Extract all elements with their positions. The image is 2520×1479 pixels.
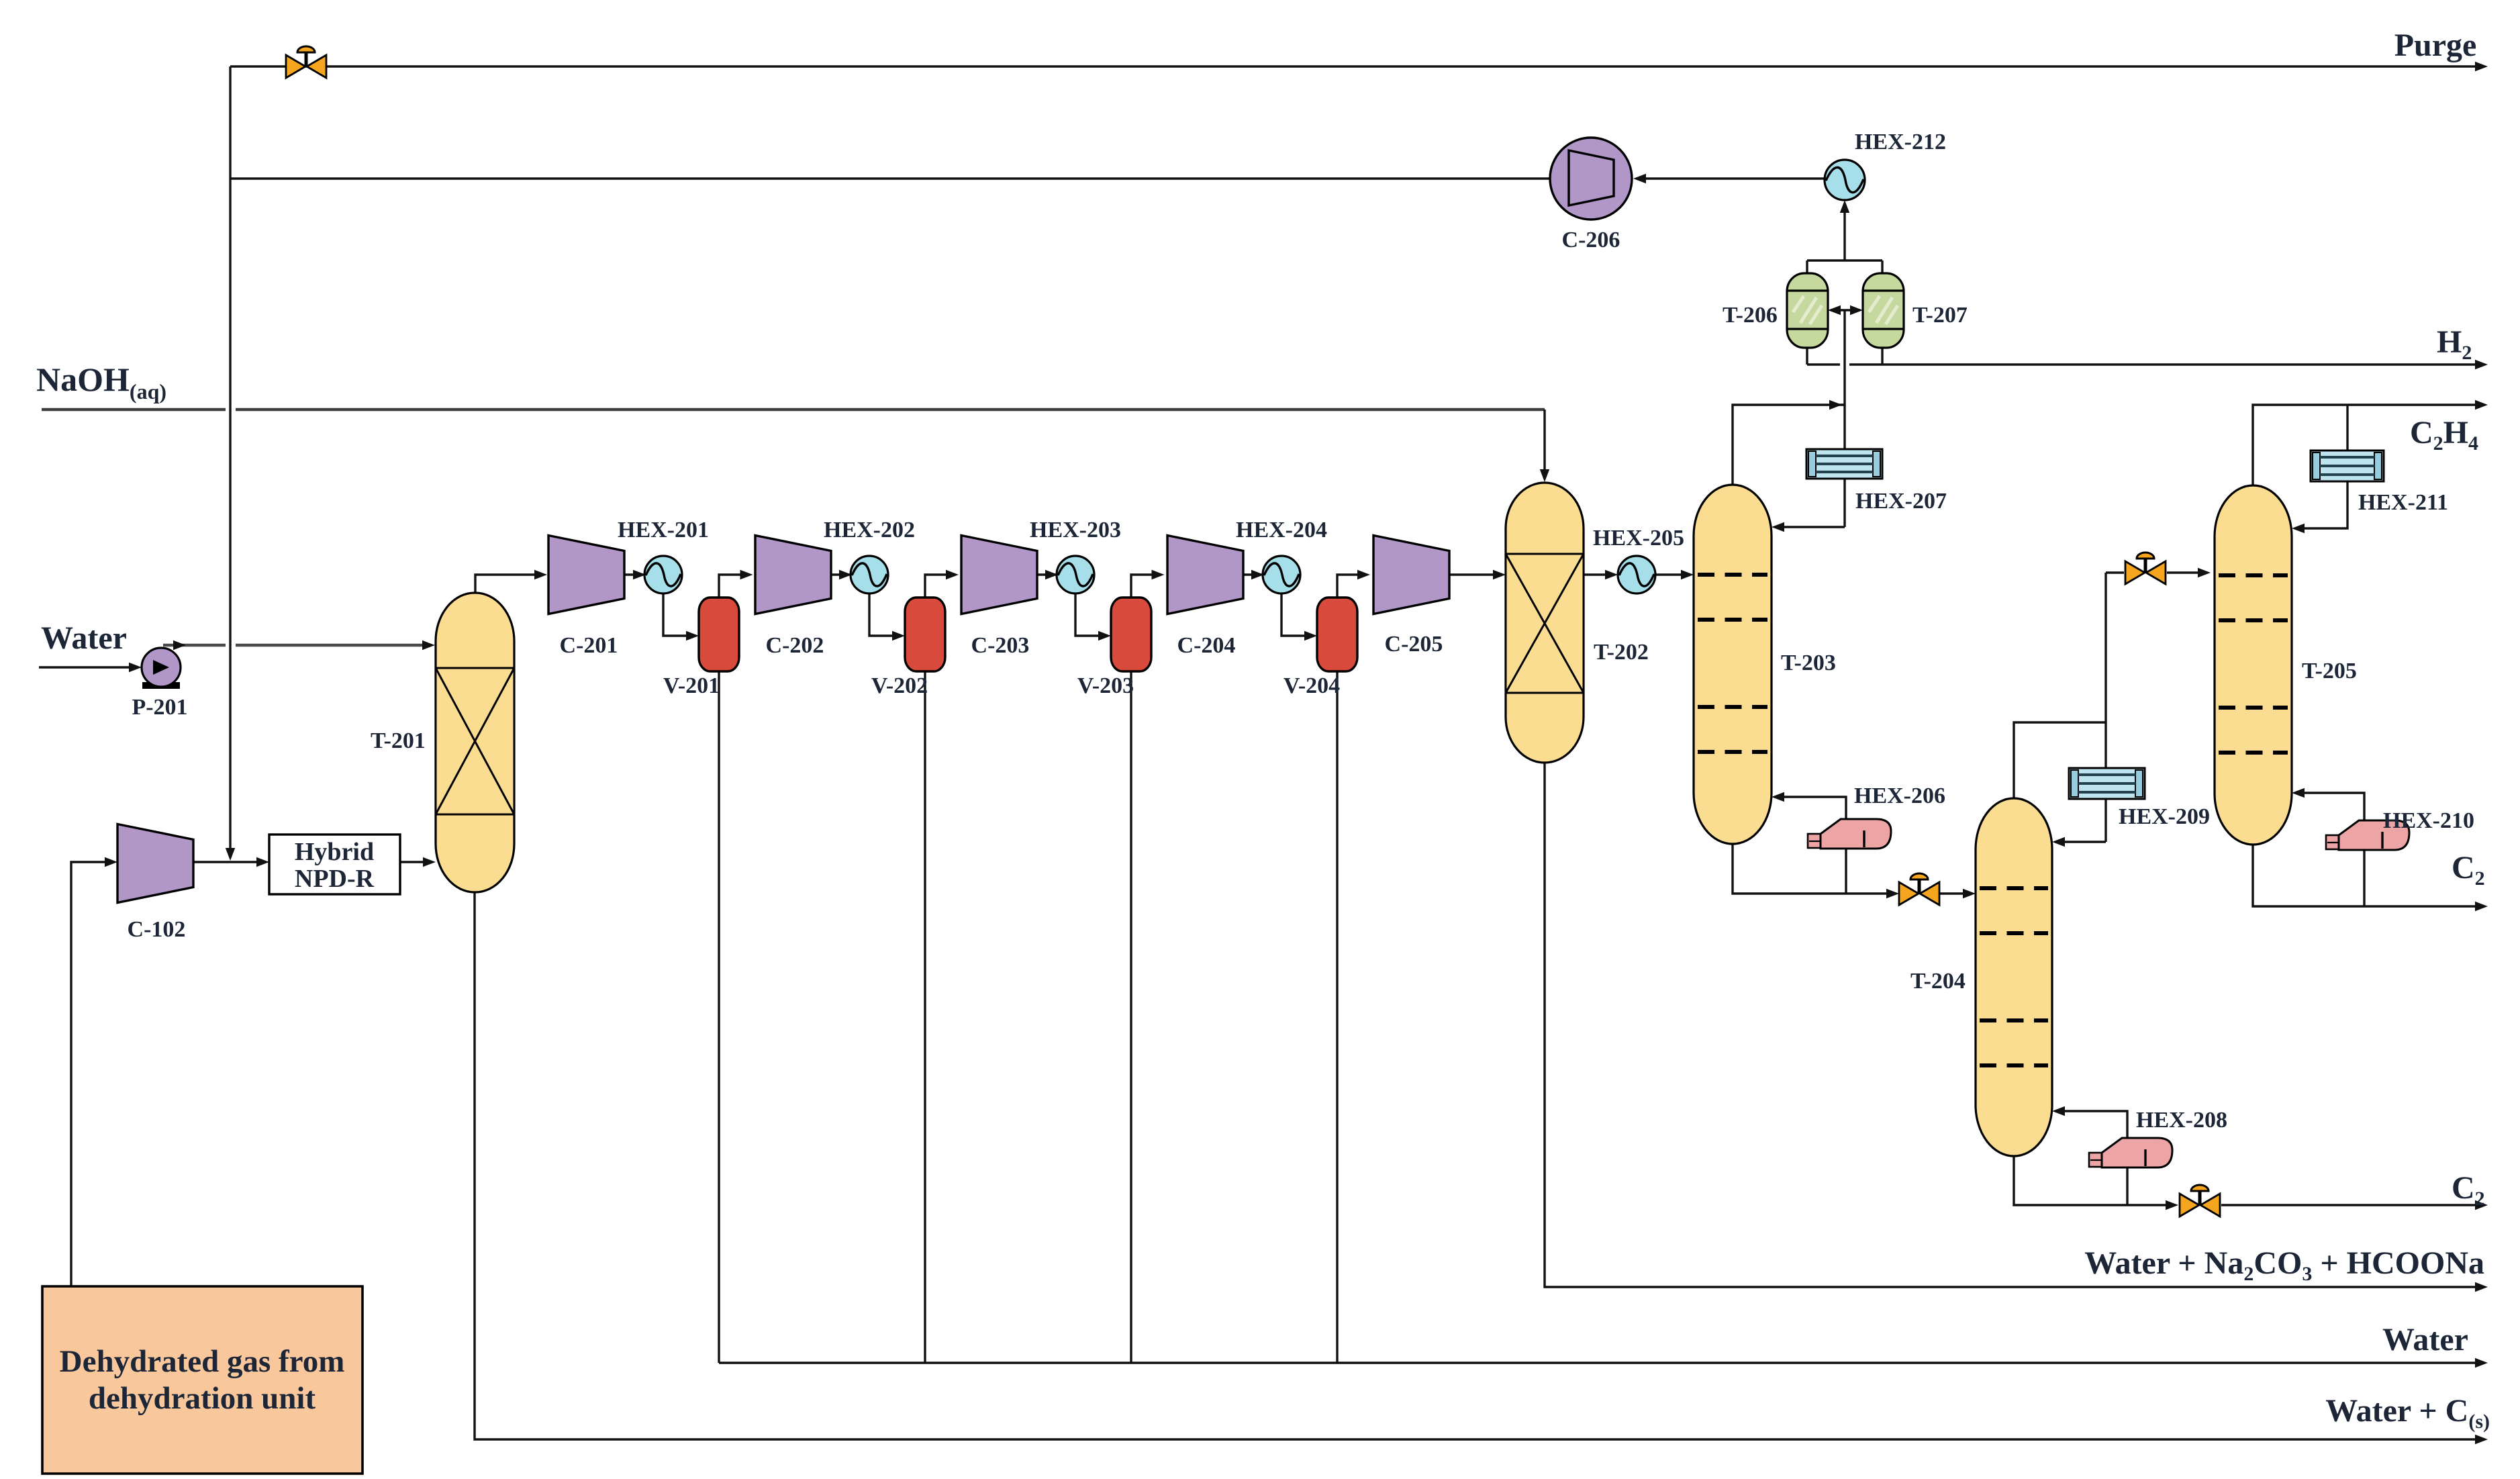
wire V-202 liquid drain — [924, 671, 926, 1363]
svg-text:T-201: T-201 — [371, 728, 426, 753]
wire drier center vertical through HEX-207 — [1843, 310, 1845, 527]
arrow into T-203 feed — [1681, 570, 1694, 579]
knockout drum V-204 — [1317, 598, 1357, 671]
arrow into Hybrid NPD-R — [256, 857, 269, 867]
svg-text:Water: Water — [2382, 1322, 2468, 1357]
letdown valve T-203 to T-204 — [1899, 873, 1939, 905]
arrow into V-203 — [1098, 631, 1111, 640]
arrow C2 upper outlet — [2475, 902, 2488, 911]
arrow Water+C(s) outlet — [2475, 1435, 2488, 1444]
wire HEX-208 riser — [2062, 1111, 2127, 1205]
feed box dehydrated gas — [42, 1286, 362, 1474]
wire NaOH(aq) feed header left part — [42, 408, 226, 412]
arrow into C-204 suction — [1152, 570, 1165, 579]
arrow into HEX-212 — [1840, 200, 1849, 213]
arrow T-203 overhead into drier riser — [1829, 400, 1842, 410]
arrow into T-206 — [1828, 305, 1841, 315]
arrow water into T-201 — [422, 640, 435, 650]
wire Hybrid NPD-R outlet to T-201 — [400, 861, 426, 863]
arrow into C-202 suction — [740, 570, 753, 579]
wire V-204 vapor to C-205 suction — [1337, 575, 1361, 598]
arrow into P-201 — [129, 663, 142, 672]
compressor C-203 — [961, 536, 1037, 614]
arrow into C-201 suction — [534, 570, 547, 579]
letdown valve T-204 bottoms C2 — [2180, 1185, 2220, 1216]
arrow into C-206 suction — [1633, 174, 1646, 183]
wire C2 letdown valve outlet — [2221, 1204, 2478, 1206]
condenser HEX-207 — [1806, 449, 1882, 479]
svg-text:HEX-205: HEX-205 — [1593, 526, 1684, 551]
wire feed gas riser from feed box — [71, 862, 108, 1286]
trays of T-203 — [1698, 575, 1767, 752]
svg-text:dehydration unit: dehydration unit — [89, 1381, 316, 1416]
svg-text:T-202: T-202 — [1594, 640, 1649, 665]
svg-text:HEX-212: HEX-212 — [1855, 130, 1946, 154]
wire junction to T-205 feed valve — [2106, 571, 2124, 573]
wire T-206 bottom leg — [1806, 348, 1808, 365]
arrow into T-207 — [1850, 305, 1863, 315]
arrow into HEX-205 — [1605, 570, 1618, 579]
condenser HEX-209 — [2069, 768, 2145, 799]
svg-text:V-202: V-202 — [871, 673, 928, 698]
wire T-201 overhead to C-201 — [475, 575, 538, 593]
svg-text:C-206: C-206 — [1562, 228, 1620, 252]
wire NaOH drop into T-202 top — [1543, 410, 1545, 473]
packing section of T-201 — [436, 668, 514, 814]
svg-text:C-204: C-204 — [1177, 633, 1236, 658]
wire purge header from recycle junction to Purge outlet — [230, 65, 2478, 67]
svg-text:HEX-201: HEX-201 — [618, 518, 709, 542]
compressor C-102 — [117, 824, 193, 903]
compressor C-201 — [548, 536, 624, 614]
arrow into T-202 — [1493, 570, 1506, 579]
wire HEX-207 return into T-203 — [1781, 526, 1845, 528]
wire drier top header — [1807, 259, 1882, 261]
reboiler HEX-210 — [2326, 820, 2409, 850]
packing section of T-202 — [1506, 554, 1584, 693]
wire T-206 top riser — [1806, 260, 1808, 273]
arrow reflux into T-205 — [2292, 524, 2305, 533]
arrow before letdown valve — [1886, 889, 1899, 898]
wire C-202 discharge to HEX-202 — [830, 573, 850, 575]
wire T-202 bottoms down — [1545, 763, 2478, 1287]
arrow HEX-206 return into T-203 — [1772, 792, 1784, 802]
arrow NaOH into T-202 — [1540, 469, 1549, 482]
wire T-205 overhead riser — [2253, 405, 2478, 485]
trays of T-204 — [1980, 888, 2048, 1065]
wire T-204 overhead vertical — [2104, 573, 2106, 842]
pump P-201 — [142, 648, 181, 689]
wire NaOH(aq) feed header right part — [236, 408, 1545, 412]
svg-text:HEX-204: HEX-204 — [1236, 518, 1327, 542]
arrow C2H4 outlet — [2475, 400, 2488, 410]
wire HEX-209 return into T-204 — [2062, 841, 2106, 843]
wire HEX-211 condenser branch — [2346, 405, 2348, 450]
cooler HEX-203 — [1057, 556, 1094, 593]
cooler HEX-204 — [1263, 556, 1300, 593]
column T-205 — [2215, 485, 2292, 845]
purge valve — [286, 46, 326, 78]
reboiler HEX-208 — [2089, 1138, 2172, 1167]
svg-text:HEX-206: HEX-206 — [1854, 783, 1945, 808]
wire HEX-204 outlet down to V-204 — [1281, 593, 1308, 636]
arrow into T-204 feed — [1963, 889, 1976, 898]
wire V-201 vapor to C-202 suction — [719, 575, 744, 598]
wire C-201 discharge to HEX-201 — [624, 573, 643, 575]
svg-text:C-205: C-205 — [1385, 632, 1443, 657]
wire drier feed cross line — [1831, 309, 1860, 311]
wire V-204 liquid drain — [1336, 671, 1338, 1363]
knockout drum V-201 — [699, 598, 739, 671]
wire H2 product header — [1849, 363, 2478, 365]
wire C-205 discharge to T-202 — [1447, 573, 1496, 575]
svg-text:HEX-208: HEX-208 — [2136, 1108, 2227, 1133]
knockout drum V-203 — [1111, 598, 1151, 671]
wire HEX-201 outlet down to V-201 — [663, 593, 689, 636]
svg-text:T-206: T-206 — [1723, 303, 1778, 328]
column T-203 — [1694, 485, 1772, 844]
wire water condensate header — [719, 1362, 2478, 1364]
svg-text:C-201: C-201 — [560, 633, 618, 658]
wire HEX-202 outlet down to V-202 — [869, 593, 895, 636]
svg-text:HEX-202: HEX-202 — [824, 518, 915, 542]
wire V-203 liquid drain — [1130, 671, 1132, 1363]
svg-text:C-202: C-202 — [766, 633, 824, 658]
wire C-204 discharge to HEX-204 — [1242, 573, 1262, 575]
column T-204 — [1976, 798, 2052, 1156]
arrow into V-201 — [686, 631, 699, 640]
svg-text:Water + Na2CO3 + HCOONa: Water + Na2CO3 + HCOONa — [2084, 1245, 2484, 1285]
wire C-203 discharge to HEX-203 — [1036, 573, 1055, 575]
arrow into V-202 — [892, 631, 905, 640]
arrow HEX-209 return into T-204 — [2052, 837, 2065, 847]
svg-text:Purge: Purge — [2394, 28, 2477, 63]
letdown valve T-204 overhead to T-205 — [2125, 553, 2166, 584]
svg-text:V-203: V-203 — [1077, 673, 1134, 698]
wire T-203 overhead riser — [1733, 405, 1845, 485]
arrow purge outlet — [2475, 62, 2488, 71]
svg-text:V-204: V-204 — [1283, 673, 1340, 698]
svg-text:C-102: C-102 — [128, 917, 186, 942]
recycle compressor C-206 — [1550, 138, 1632, 220]
svg-text:Hybrid: Hybrid — [295, 838, 374, 866]
wire recycle vertical down left side — [229, 66, 231, 850]
reboiler HEX-206 — [1808, 819, 1891, 849]
condenser HEX-211 — [2311, 450, 2384, 481]
wire T-205 bottoms — [2253, 845, 2478, 906]
arrow into HEX-203 — [1045, 570, 1058, 579]
wire P-201 discharge right part — [236, 644, 426, 647]
knockout drum V-202 — [905, 598, 945, 671]
svg-text:P-201: P-201 — [132, 695, 187, 720]
column T-202 — [1506, 483, 1584, 763]
svg-text:T-207: T-207 — [1912, 303, 1968, 328]
arrow into HEX-204 — [1251, 570, 1264, 579]
svg-text:HEX-209: HEX-209 — [2119, 804, 2210, 829]
cooler HEX-212 — [1825, 160, 1865, 200]
wire HEX-203 outlet down to V-203 — [1075, 593, 1102, 636]
wire T-203 bottoms — [1733, 844, 1890, 894]
svg-text:NPD-R: NPD-R — [295, 865, 375, 893]
svg-text:T-204: T-204 — [1910, 969, 1966, 994]
svg-text:C-203: C-203 — [971, 633, 1030, 658]
svg-text:Water + C(s): Water + C(s) — [2325, 1393, 2490, 1433]
wire valve to T-204 feed — [1939, 892, 1966, 894]
trays of T-205 — [2219, 575, 2288, 753]
wire V-201 liquid drain — [718, 671, 720, 1363]
arrow into HEX-201 — [633, 570, 646, 579]
svg-text:HEX-210: HEX-210 — [2383, 808, 2474, 833]
arrow into V-204 — [1304, 631, 1317, 640]
wire C-102 discharge to Hybrid NPD-R — [193, 861, 260, 863]
arrow into C-205 suction — [1357, 570, 1370, 579]
svg-text:HEX-211: HEX-211 — [2358, 490, 2448, 515]
arrow HEX-208 return into T-204 — [2052, 1106, 2065, 1116]
svg-text:HEX-203: HEX-203 — [1030, 518, 1121, 542]
wire V-202 vapor to C-203 suction — [925, 575, 949, 598]
wire header riser to HEX-212 — [1843, 209, 1845, 260]
arrow Water+Na2CO3+HCOONa outlet — [2475, 1282, 2488, 1292]
svg-text:C2H4: C2H4 — [2410, 415, 2478, 455]
compressor C-205 — [1373, 536, 1449, 614]
svg-text:HEX-207: HEX-207 — [1855, 489, 1947, 514]
wire T-207 bottom leg — [1881, 348, 1883, 365]
svg-text:V-201: V-201 — [663, 673, 720, 698]
wire HEX-205 outlet to T-203 — [1655, 573, 1684, 575]
wire T-204 bottoms — [2014, 1156, 2169, 1205]
arrow into HEX-202 — [839, 570, 852, 579]
arrow into C-102 suction — [105, 857, 117, 867]
arrow P-201 discharge — [173, 640, 186, 650]
compressor C-204 — [1167, 536, 1243, 614]
svg-text:Water: Water — [41, 620, 127, 656]
column T-201 — [436, 593, 514, 892]
wire HEX-212 outlet to C-206 suction — [1641, 177, 1825, 179]
arrow into T-205 feed — [2198, 568, 2211, 577]
wire HEX-210 riser — [2301, 793, 2364, 906]
arrow before C2 letdown valve — [2166, 1200, 2178, 1210]
wire HEX-206 riser — [1781, 797, 1846, 894]
cooler HEX-205 — [1618, 556, 1655, 593]
arrow C2 lower outlet — [2475, 1200, 2488, 1210]
wire HEX-211 return — [2301, 481, 2347, 528]
cooler HEX-202 — [851, 556, 888, 593]
wire valve to T-205 feed — [2167, 571, 2201, 573]
arrow recycle into NPD-R feed junction — [226, 848, 235, 861]
svg-text:T-203: T-203 — [1781, 651, 1836, 675]
wire P-201 discharge left part — [163, 644, 226, 647]
svg-text:T-205: T-205 — [2302, 659, 2357, 683]
svg-text:Dehydrated gas from: Dehydrated gas from — [60, 1344, 345, 1379]
arrow Water outlet — [2475, 1358, 2488, 1368]
wire drier bottoms header left — [1807, 363, 1840, 365]
drier vessel T-206 — [1787, 273, 1828, 348]
compressor C-202 — [755, 536, 831, 614]
drier vessel T-207 — [1863, 273, 1904, 348]
wire T-202 overhead to HEX-205 — [1584, 573, 1608, 575]
wire T-201 bottoms drain — [475, 892, 2478, 1439]
wire T-204 overhead riser — [2014, 722, 2106, 798]
wire T-207 top riser — [1881, 260, 1883, 273]
wire V-203 vapor to C-204 suction — [1131, 575, 1155, 598]
arrow HEX-210 return into T-205 — [2292, 788, 2305, 798]
cooler HEX-201 — [644, 556, 682, 593]
arrow reflux into T-203 — [1772, 522, 1784, 532]
reactor box Hybrid NPD-R — [269, 834, 400, 894]
arrow into C-203 suction — [946, 570, 959, 579]
wire water inlet to P-201 — [39, 666, 132, 668]
arrow into T-201 bottom feed — [423, 857, 436, 867]
arrow H2 outlet — [2475, 360, 2488, 369]
wire C-206 discharge to recycle vertical — [230, 177, 1550, 179]
